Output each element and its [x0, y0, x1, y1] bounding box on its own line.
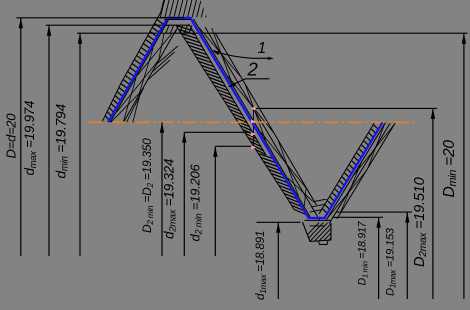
leader line 1 (basic profile callout) — [214, 51, 253, 59]
ascending flank bolt zone cross hatch — [328, 124, 395, 218]
svg-text:D=d=20: D=d=20 — [3, 113, 18, 159]
right flank bolt-zone outer boundary — [215, 33, 316, 205]
extension line d1max=18.891 (L9) — [257, 221, 301, 223]
pink marker d2max line end — [251, 132, 256, 136]
pink marker d2min line end — [251, 145, 256, 149]
right flank nut zone hatch rungs — [176, 26, 306, 215]
pink marker pitch line crossing — [251, 119, 256, 123]
dimension line V6 d2min — [214, 146, 216, 256]
extension line D2max=19.510 (L4) — [253, 107, 437, 109]
right flank line hugging blue (bolt max profile) — [194, 19, 311, 218]
extension line d2max=19.324 (L5) — [184, 131, 251, 133]
dimension line V2 d_max — [48, 25, 50, 256]
short line inside root zone — [310, 225, 325, 227]
root zone bottom tab — [319, 241, 329, 245]
extension line d=D=20 level (L1) — [16, 17, 184, 19]
left flank bolt zone cross hatch — [111, 26, 178, 122]
right flank nut-zone outer boundary — [177, 26, 295, 210]
svg-text:2: 2 — [247, 59, 259, 80]
left flank nut zone hatch rungs — [105, 20, 164, 121]
extension line D1max=19.153 (L7) — [336, 211, 412, 213]
ascending flank nut-zone boundary — [319, 123, 375, 215]
arrowhead of V11 — [462, 33, 466, 44]
right flank bolt zone cross hatch — [199, 28, 315, 206]
arrowhead of V9 — [405, 212, 409, 223]
extension line d2min=19.206 (L6) — [215, 145, 251, 147]
centerline (pitch line) orange dash-dot — [89, 121, 414, 123]
hatch between flanks above root — [300, 197, 336, 214]
arrowhead of V6 — [213, 146, 217, 157]
leader line 2 (tolerance zone callout) — [245, 78, 269, 80]
dimension line V9 D1max — [406, 212, 408, 299]
arrowhead of V1 — [19, 18, 23, 29]
svg-text:Dmin =20: Dmin =20 — [441, 140, 459, 198]
extension line d_max=19.974 (L2) — [46, 24, 190, 26]
right flank nut-zone inner boundary — [189, 24, 266, 155]
root zone hatch — [301, 222, 355, 242]
d=20 line over blue crest — [160, 17, 184, 19]
dimension line V3 d_min — [79, 33, 81, 256]
arrowhead of V3 — [78, 33, 82, 44]
right flank bolt-zone mid boundary — [205, 27, 320, 221]
arrowhead of V8 — [376, 217, 380, 228]
ascending flank nut zone hatch rungs — [322, 125, 378, 214]
left flank line hugging blue (bolt max profile) — [110, 20, 168, 122]
left flank nut-zone boundary line — [102, 0, 164, 122]
dimension line V5 d2max — [183, 132, 185, 256]
extension line D1min=18.917 (L8) — [333, 216, 383, 218]
ascending flank outer boundary — [337, 123, 396, 220]
arrowhead of V5 — [182, 132, 186, 143]
arrowhead of V4 — [160, 122, 164, 133]
left flank outer streak lines — [127, 88, 144, 122]
dimension line V11 Dmin — [463, 33, 465, 299]
root zone boundary — [303, 222, 332, 242]
dimension line V1 D=d=20 — [20, 18, 22, 256]
pink marker D2max line start — [251, 106, 256, 110]
arrowhead of V2 — [47, 25, 51, 36]
bolt root line under blue — [305, 219, 331, 221]
dimension line V4 D2min — [161, 122, 163, 256]
arrowhead of V7 — [276, 222, 280, 233]
dimension line V10 D2max — [432, 108, 434, 299]
apex hatch zone above crest — [156, 0, 210, 18]
arrowhead of V10 — [431, 108, 435, 119]
ascending flank mid line — [329, 123, 390, 224]
left flank bolt-zone outer boundary — [124, 30, 177, 122]
extension line d_min=19.794 (L3) — [77, 32, 468, 34]
bolt crest tolerance zone hatch — [157, 25, 202, 34]
basic thread profile M20x1 (blue) — [108, 18, 383, 218]
dimension line V7 d1max — [277, 222, 279, 299]
nut Dmin crest line under blue — [164, 19, 191, 21]
dimension line V8 D1min — [378, 217, 380, 299]
projection line on flank x=253 — [252, 108, 254, 147]
ascending flank line hugging blue — [326, 123, 386, 222]
svg-text:1: 1 — [258, 40, 267, 57]
